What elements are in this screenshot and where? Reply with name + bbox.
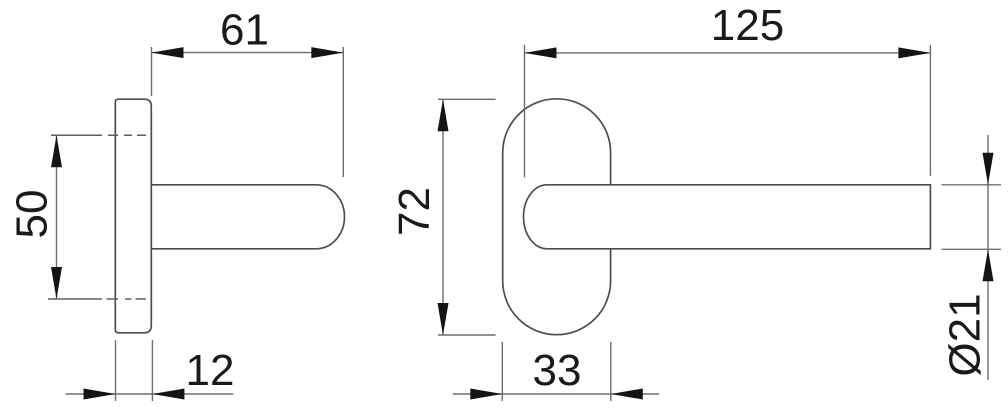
svg-text:12: 12 [186,346,235,395]
svg-text:33: 33 [533,346,582,395]
svg-text:50: 50 [8,190,57,239]
svg-text:61: 61 [220,6,269,55]
svg-text:Ø21: Ø21 [941,293,990,376]
svg-text:125: 125 [711,1,784,50]
svg-text:72: 72 [390,187,439,236]
